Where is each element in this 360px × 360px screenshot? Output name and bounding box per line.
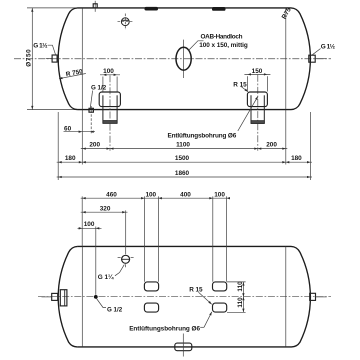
svg-text:60: 60 [64,125,72,132]
svg-text:100: 100 [84,221,95,228]
svg-text:1500: 1500 [175,155,190,162]
svg-text:G 1½: G 1½ [33,41,48,49]
svg-text:100: 100 [103,68,114,75]
svg-text:110: 110 [237,281,244,292]
svg-text:200: 200 [266,141,277,148]
svg-text:1100: 1100 [176,141,190,148]
svg-text:460: 460 [106,192,117,199]
svg-text:150: 150 [252,68,263,75]
svg-text:180: 180 [65,155,76,162]
svg-text:1860: 1860 [175,170,190,177]
svg-text:G 1/2: G 1/2 [91,84,107,91]
svg-text:G 1/2: G 1/2 [107,307,123,314]
svg-text:320: 320 [100,205,111,212]
svg-text:100: 100 [214,192,225,199]
svg-text:400: 400 [180,192,191,199]
svg-text:G 1¼: G 1¼ [98,273,114,281]
svg-text:G 1½: G 1½ [321,42,336,50]
svg-text:Entlüftungsbohrung Ø6: Entlüftungsbohrung Ø6 [129,325,200,332]
svg-text:100: 100 [145,192,156,199]
svg-text:200: 200 [89,141,100,148]
svg-text:110: 110 [237,297,244,308]
svg-text:Entlüftungsbohrung Ø6: Entlüftungsbohrung Ø6 [168,132,237,139]
svg-text:180: 180 [291,155,302,162]
svg-text:R 15: R 15 [189,287,203,294]
svg-text:OAB-Handloch: OAB-Handloch [201,34,243,41]
svg-text:R 750: R 750 [65,68,84,78]
svg-text:100 x 150, mittig: 100 x 150, mittig [199,42,248,49]
svg-text:Ø750: Ø750 [26,49,33,67]
svg-text:R 15: R 15 [233,81,247,88]
